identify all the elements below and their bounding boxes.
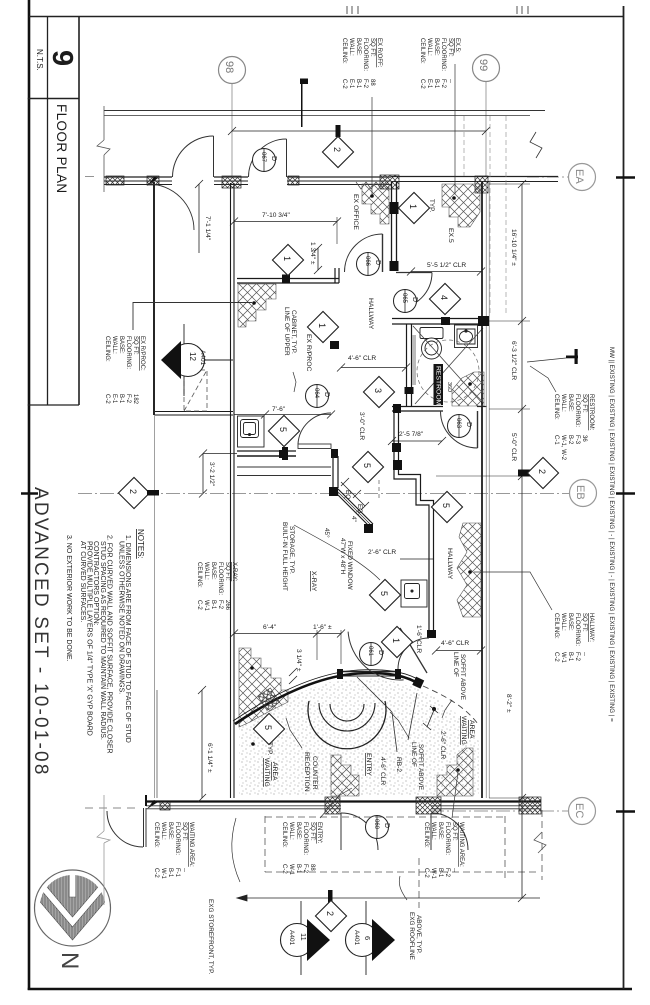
- svg-text:BASE:: BASE:: [210, 562, 216, 580]
- svg-text:SQ FT:: SQ FT:: [581, 394, 587, 413]
- notes block: [65, 529, 145, 754]
- svg-text:WALL:: WALL:: [348, 38, 354, 56]
- section marker 12/A401: [161, 324, 233, 396]
- svg-text:B-1: B-1: [437, 868, 443, 878]
- svg-text:--: --: [181, 868, 187, 872]
- restroom diagonals: [413, 326, 483, 404]
- svg-text:2: 2: [332, 147, 342, 152]
- svg-text:FLOORING:: FLOORING:: [574, 613, 580, 646]
- svg-text:5: 5: [278, 427, 288, 432]
- svg-text:FLOORING:: FLOORING:: [217, 562, 223, 595]
- svg-text:WAITING AREA:: WAITING AREA:: [188, 822, 194, 867]
- svg-text:C-2: C-2: [196, 600, 202, 610]
- door D/064 leaf+arc: [298, 413, 331, 449]
- svg-text:11: 11: [299, 933, 308, 941]
- svg-text:2'-6" CLR: 2'-6" CLR: [368, 549, 396, 556]
- svg-text:4: 4: [439, 295, 449, 300]
- svg-text:EA: EA: [573, 169, 585, 184]
- svg-text:B-1: B-1: [118, 394, 124, 404]
- svg-text:1: 1: [317, 323, 327, 328]
- finish tag ENTRY: [281, 822, 322, 876]
- svg-text:ADVANCED SET - 10-01-08: ADVANCED SET - 10-01-08: [30, 487, 51, 777]
- svg-text:SQ FT:: SQ FT:: [309, 822, 315, 841]
- svg-text:4": 4": [350, 516, 357, 522]
- svg-text:45°: 45°: [323, 528, 331, 538]
- svg-text:7'-10 3/4": 7'-10 3/4": [262, 212, 290, 219]
- svg-text:SQ FT:: SQ FT:: [581, 613, 587, 632]
- finish tag WAITING AREA left: [153, 822, 194, 880]
- svg-text:F-3: F-3: [574, 435, 580, 445]
- svg-text:D: D: [377, 650, 384, 655]
- svg-text:D: D: [383, 823, 390, 828]
- svg-text:B-2: B-2: [567, 435, 573, 445]
- diamond kn 5 b: [352, 451, 383, 482]
- svg-text:C-2: C-2: [553, 652, 559, 662]
- svg-text:C-2: C-2: [419, 79, 425, 89]
- hatch H3 (EX.5 pier): [442, 184, 480, 227]
- svg-text:5'-5 1/2" CLR: 5'-5 1/2" CLR: [427, 262, 466, 269]
- svg-text:N: N: [56, 952, 83, 969]
- door tag D/064: [306, 385, 331, 408]
- svg-text:X-RAY: X-RAY: [310, 571, 317, 592]
- label leaders over counter: [357, 677, 417, 752]
- svg-text:3'-2 1/2": 3'-2 1/2": [208, 462, 215, 487]
- wall W10 (EX.5 west): [392, 182, 397, 271]
- existing schedule column: [608, 347, 615, 722]
- svg-text:F-2: F-2: [217, 600, 223, 610]
- door tag D/066: [357, 253, 382, 276]
- bottom door far left: [107, 808, 146, 847]
- hatch on curve: [258, 688, 280, 710]
- diamond kn 5 a: [268, 415, 299, 446]
- svg-text:CEILING:: CEILING:: [419, 38, 425, 64]
- door D/063 leaf+arc: [441, 411, 478, 448]
- svg-text:060: 060: [373, 819, 379, 830]
- svg-text:99: 99: [477, 59, 489, 71]
- svg-text:12: 12: [188, 352, 197, 361]
- svg-text:F-2: F-2: [440, 79, 446, 89]
- keynote tick on dim: [336, 125, 341, 137]
- svg-text:1: 1: [408, 204, 418, 209]
- svg-text:E-1: E-1: [426, 79, 432, 89]
- bottom piers hatched: [160, 797, 541, 814]
- svg-text:5: 5: [441, 503, 451, 508]
- svg-text:2: 2: [325, 911, 335, 916]
- svg-text:2: 2: [128, 489, 138, 494]
- wall W2 (EX OFFICE south): [155, 412, 233, 416]
- svg-text:NOTES:: NOTES:: [136, 529, 145, 559]
- svg-text:FLOOR PLAN: FLOOR PLAN: [54, 104, 69, 194]
- hatch H4 restroom: [452, 372, 484, 406]
- svg-text:W-1, W-2: W-1, W-2: [560, 435, 566, 461]
- wall W1 left (EX OFFICE west): [153, 182, 156, 798]
- svg-text:FIXED WINDOW: FIXED WINDOW: [346, 541, 353, 591]
- svg-text:1: 1: [282, 256, 292, 261]
- grid bubble EC: [430, 798, 596, 825]
- svg-text:D: D: [270, 156, 277, 161]
- finish tag RESTROOM: [553, 394, 594, 461]
- svg-text:WALL:: WALL:: [560, 394, 566, 412]
- svg-text:7'-1 1/4": 7'-1 1/4": [204, 216, 211, 241]
- title block divider: [28, 98, 79, 100]
- svg-text:D: D: [323, 392, 330, 397]
- svg-text:AREA: AREA: [468, 720, 475, 739]
- svg-text:A401: A401: [353, 930, 360, 946]
- svg-text:MW || EXISTING | EXISTING | E: MW || EXISTING | EXISTING | EXISTING | E…: [608, 347, 615, 722]
- diamond kn 3: [363, 376, 394, 407]
- hatch H8 entry east: [437, 748, 473, 796]
- svg-text:RECEPTION: RECEPTION: [303, 752, 310, 792]
- svg-text:SOFFIT ABOVE: SOFFIT ABOVE: [459, 654, 466, 700]
- svg-text:E-1: E-1: [111, 394, 117, 404]
- svg-text:CEILING:: CEILING:: [281, 822, 287, 848]
- built-in storage dashes: [378, 480, 380, 500]
- svg-text:BASE:: BASE:: [567, 613, 573, 631]
- keynote diamond 2 top: [322, 136, 353, 167]
- door tag D/061: [360, 643, 385, 666]
- svg-text:CEILING:: CEILING:: [341, 38, 347, 64]
- keynote flag top: [300, 79, 308, 128]
- svg-text:F-2: F-2: [574, 652, 580, 662]
- svg-text:3. NO EXTERIOR WORK TO BE DON: 3. NO EXTERIOR WORK TO BE DONE.: [65, 535, 72, 662]
- svg-text:RESTROOM: RESTROOM: [435, 366, 442, 406]
- svg-text:C-2: C-2: [281, 864, 287, 874]
- svg-text:6'-1 1/4" ±: 6'-1 1/4" ±: [206, 743, 213, 773]
- border bottom thick: [28, 988, 632, 991]
- svg-text:EQ.: EQ.: [356, 504, 363, 515]
- svg-text:D: D: [465, 422, 472, 427]
- svg-text:F-1: F-1: [174, 868, 180, 878]
- svg-text:1: 1: [391, 638, 401, 643]
- svg-text:16'-10 1/4" ±: 16'-10 1/4" ±: [510, 229, 517, 266]
- svg-text:FLOORING:: FLOORING:: [125, 336, 131, 369]
- svg-text:1'-6" CLR: 1'-6" CLR: [415, 625, 422, 653]
- svg-text:2'-5 7/8": 2'-5 7/8": [399, 431, 424, 438]
- bottom dimension line: [237, 895, 540, 901]
- svg-text:6'-3 1/2" CLR: 6'-3 1/2" CLR: [510, 341, 517, 380]
- hatch H7 entry west: [331, 755, 359, 796]
- svg-text:--: --: [447, 79, 453, 83]
- svg-text:HALLWAY: HALLWAY: [446, 548, 453, 580]
- restroom label box: [434, 364, 444, 405]
- roofline dashed: [265, 810, 542, 908]
- svg-text:C-2: C-2: [423, 868, 429, 878]
- svg-text:STUD SPACING AS REQUIRED TO MA: STUD SPACING AS REQUIRED TO MAINTAIN WAL…: [99, 541, 106, 740]
- svg-text:BASE:: BASE:: [433, 38, 439, 56]
- storefront wall top: [104, 177, 558, 185]
- svg-text:E-1: E-1: [348, 79, 354, 89]
- svg-text:HALLWAY:: HALLWAY:: [588, 613, 594, 642]
- diamond kn 1 d: [381, 626, 412, 657]
- svg-text:WAITING AREA:: WAITING AREA:: [458, 822, 464, 867]
- svg-text:EX R/OFF:: EX R/OFF:: [376, 38, 382, 68]
- diamond kn 1 a: [272, 244, 303, 275]
- wall W3 thick (work room south): [237, 451, 338, 456]
- svg-text:8'-2" ±: 8'-2" ±: [505, 694, 512, 713]
- hatch H5 hallway: [457, 523, 481, 617]
- svg-text:FLOORING:: FLOORING:: [174, 822, 180, 855]
- door tag D/063: [448, 415, 473, 438]
- wall W4 (X-RAY west): [231, 183, 235, 798]
- svg-text:SQ FT:: SQ FT:: [447, 38, 453, 57]
- svg-text:RESTROOM:: RESTROOM:: [588, 394, 594, 431]
- svg-text:WAITING: WAITING: [263, 758, 270, 787]
- counter chord double line: [341, 672, 398, 677]
- svg-text:SQ FT:: SQ FT:: [132, 336, 138, 355]
- entry door D/061: [348, 628, 427, 684]
- door D/065 arc: [396, 273, 432, 309]
- band door A: [173, 136, 214, 177]
- svg-text:WALL:: WALL:: [203, 562, 209, 580]
- svg-text:F-2: F-2: [302, 864, 308, 874]
- svg-text:9: 9: [46, 50, 78, 66]
- reception counter arcs: [308, 701, 386, 749]
- finish tag EX.5: [419, 38, 460, 89]
- svg-text:TYP.: TYP.: [266, 742, 273, 756]
- svg-text:SQ FT:: SQ FT:: [451, 822, 457, 841]
- svg-text:065: 065: [401, 293, 407, 304]
- bottom band wall: [146, 800, 541, 802]
- svg-text:FLOORING:: FLOORING:: [574, 394, 580, 427]
- svg-text:CABINET, TYP.: CABINET, TYP.: [290, 310, 297, 354]
- svg-text:CEILING:: CEILING:: [104, 336, 110, 362]
- toilet: [420, 328, 443, 360]
- roofline break zigzag: [534, 832, 546, 853]
- wall W11 (hallway east): [482, 182, 489, 798]
- title block line 2: [78, 16, 80, 405]
- dashed existing lines top right: [464, 116, 506, 316]
- svg-text:B-1: B-1: [355, 79, 361, 89]
- svg-text:SQ FT:: SQ FT:: [224, 562, 230, 581]
- svg-text:6'-4": 6'-4": [263, 624, 277, 631]
- svg-text:EQ.: EQ.: [344, 490, 351, 501]
- svg-text:F-2: F-2: [125, 394, 131, 404]
- diamond kn 1 b: [307, 311, 338, 342]
- door X-RAY arc: [398, 638, 429, 669]
- door tag D/065: [394, 290, 419, 313]
- svg-text:EXG ROOFLINE: EXG ROOFLINE: [408, 912, 415, 960]
- svg-text:5: 5: [379, 591, 389, 596]
- svg-text:F-2: F-2: [362, 79, 368, 89]
- svg-text:6: 6: [363, 936, 372, 940]
- svg-text:EB: EB: [574, 485, 586, 500]
- svg-text:X-RAY:: X-RAY:: [231, 562, 237, 582]
- diamond kn 2 right: [518, 470, 532, 477]
- diamond kn 5 d: [369, 579, 400, 610]
- svg-text:--: --: [451, 868, 457, 872]
- diamond kn 2 left: [118, 477, 149, 508]
- svg-text:WALL:: WALL:: [160, 822, 166, 840]
- svg-text:5: 5: [362, 463, 372, 468]
- svg-text:N.T.S.: N.T.S.: [35, 49, 44, 71]
- band door B: [249, 139, 287, 177]
- svg-text:UNLESS OTHERWISE NOTED ON DRAW: UNLESS OTHERWISE NOTED ON DRAWINGS.: [118, 541, 125, 694]
- svg-text:LINE OF: LINE OF: [452, 652, 459, 677]
- svg-text:A401: A401: [288, 930, 295, 946]
- svg-text:CEILING:: CEILING:: [553, 613, 559, 639]
- svg-text:EXG STOREFRONT, TYP.: EXG STOREFRONT, TYP.: [207, 899, 214, 975]
- svg-text:RB-2: RB-2: [395, 757, 402, 772]
- dim 7-1 vertical pair: [195, 180, 203, 253]
- svg-text:B-1: B-1: [433, 79, 439, 89]
- svg-text:4'-6" CLR: 4'-6" CLR: [441, 640, 469, 647]
- svg-text:D: D: [411, 297, 418, 302]
- svg-text:064: 064: [313, 388, 319, 399]
- svg-text:EX.5: EX.5: [447, 228, 454, 243]
- svg-text:5: 5: [263, 725, 273, 730]
- svg-text:066: 066: [364, 256, 370, 267]
- svg-text:BASE:: BASE:: [295, 822, 301, 840]
- svg-text:B-1: B-1: [295, 864, 301, 874]
- svg-text:CEILING:: CEILING:: [196, 562, 202, 588]
- dim line 98-99: [228, 127, 490, 135]
- svg-text:063: 063: [455, 418, 461, 429]
- diagonal fixed window: [334, 488, 373, 527]
- svg-text:B-1: B-1: [167, 868, 173, 878]
- hatch H1 (EX R/PROC pier): [238, 284, 276, 327]
- svg-text:SQ FT:: SQ FT:: [369, 38, 375, 57]
- svg-text:WALL:: WALL:: [426, 38, 432, 56]
- svg-text:D: D: [374, 260, 381, 265]
- svg-text:BASE:: BASE:: [118, 336, 124, 354]
- svg-text:4'-6" CLR: 4'-6" CLR: [348, 355, 376, 362]
- svg-text:F-2: F-2: [444, 868, 450, 878]
- EX OFFICE entry door arc (inside room1): [148, 184, 194, 230]
- bottom double door: [341, 813, 468, 850]
- svg-text:AT CURVED SURFACES.: AT CURVED SURFACES.: [79, 541, 86, 622]
- turning circle dashed: [417, 340, 479, 402]
- keynote flag right: [566, 356, 578, 359]
- svg-text:B-1: B-1: [567, 652, 573, 662]
- stipple floor waiting/entry: [239, 678, 479, 796]
- north arrow logo: [35, 868, 111, 946]
- restroom west wall: [407, 324, 412, 406]
- border top: [29, 16, 624, 18]
- svg-text:ENTRY: ENTRY: [365, 753, 372, 776]
- dashed closet: [184, 370, 207, 411]
- diamond kn 5 e: [253, 713, 284, 744]
- diamond kn 1 c: [398, 192, 429, 223]
- section marker 6/A401: [346, 901, 396, 975]
- border right: [623, 6, 625, 989]
- svg-text:EX R/PROC:: EX R/PROC:: [139, 336, 145, 371]
- svg-text:BASE:: BASE:: [437, 822, 443, 840]
- glazing marks: [356, 182, 386, 189]
- title block end: [28, 404, 79, 406]
- svg-text:FLOORING:: FLOORING:: [362, 38, 368, 71]
- fold marks top: [347, 6, 528, 14]
- svg-text:266: 266: [224, 600, 230, 611]
- svg-text:EC: EC: [573, 803, 585, 818]
- svg-text:B-1: B-1: [210, 600, 216, 610]
- finish tag EX R/OFF: [341, 38, 382, 89]
- soffit dashed continuation: [423, 686, 478, 724]
- svg-text:C-1: C-1: [553, 435, 559, 445]
- svg-text:COUNTER: COUNTER: [311, 756, 318, 790]
- svg-text:W-1: W-1: [560, 652, 566, 664]
- door D/066 leaf+arc: [345, 234, 383, 272]
- restroom south wall: [392, 407, 487, 412]
- svg-text:TYP.: TYP.: [428, 199, 435, 213]
- svg-text:SOFFIT ABOVE: SOFFIT ABOVE: [417, 744, 424, 790]
- border left thick: [28, 0, 31, 990]
- svg-text:2: 2: [537, 469, 547, 474]
- curved wall: [233, 670, 422, 724]
- svg-text:LINE OF UPPER: LINE OF UPPER: [283, 307, 290, 356]
- svg-text:98: 98: [223, 61, 235, 73]
- svg-text:EX R/PROC: EX R/PROC: [305, 334, 312, 371]
- svg-text:WALL:: WALL:: [430, 822, 436, 840]
- wall W7 stepped (X-RAY east): [394, 411, 434, 637]
- svg-text:7'-6": 7'-6": [272, 406, 286, 413]
- svg-text:3: 3: [373, 388, 383, 393]
- svg-text:ABOVE, TYP.: ABOVE, TYP.: [415, 915, 422, 954]
- svg-text:ENTRY:: ENTRY:: [316, 822, 322, 844]
- svg-text:WAITING: WAITING: [460, 716, 467, 745]
- svg-text:C-2: C-2: [153, 868, 159, 878]
- wall W5 (X-RAY NE vert): [333, 456, 338, 488]
- svg-text:WALL:: WALL:: [288, 822, 294, 840]
- keynote diamond 2 bottom: [315, 900, 346, 931]
- finish tag WAITING AREA right: [423, 822, 464, 880]
- diamond kn 4: [429, 283, 460, 314]
- grid bubble 98: [219, 57, 246, 177]
- dim 2-6 diag: [432, 707, 436, 711]
- svg-text:2'-6" CLR: 2'-6" CLR: [439, 731, 446, 759]
- svg-text:SQ FT:: SQ FT:: [181, 822, 187, 841]
- svg-text:CEILING:: CEILING:: [423, 822, 429, 848]
- finish tag X-RAY: [196, 562, 237, 612]
- svg-text:W-1: W-1: [203, 600, 209, 612]
- cased opening lines: [237, 467, 331, 476]
- svg-text:STORAGE, TYP.: STORAGE, TYP.: [288, 526, 295, 574]
- svg-text:47"W x 48"H: 47"W x 48"H: [339, 538, 346, 575]
- X-RAY sink cabinet: [401, 580, 427, 607]
- svg-text:067: 067: [260, 152, 266, 163]
- svg-text:5'-0" CLR: 5'-0" CLR: [510, 433, 517, 461]
- svg-text:A401: A401: [199, 350, 206, 366]
- work room sink counter: [238, 416, 265, 447]
- svg-text:36D: 36D: [446, 382, 452, 392]
- svg-text:W-1: W-1: [288, 864, 294, 876]
- svg-text:--: --: [581, 652, 587, 656]
- svg-text:1 3/4" ±: 1 3/4" ±: [309, 242, 316, 265]
- svg-text:BUILT-IN FULL HEIGHT: BUILT-IN FULL HEIGHT: [281, 522, 288, 591]
- svg-text:1'-6" ±: 1'-6" ±: [313, 624, 332, 631]
- grid bubble EA: [527, 164, 596, 191]
- svg-text:C-2: C-2: [341, 79, 347, 89]
- finish tag HALLWAY: [553, 613, 594, 664]
- svg-text:C-2: C-2: [104, 394, 110, 404]
- diamond kn 5 c: [431, 491, 462, 522]
- band right break: [530, 132, 542, 158]
- title block line 1: [47, 16, 49, 405]
- wall W13 (EX R/PROC south): [237, 268, 339, 283]
- svg-text:EX OFFICE: EX OFFICE: [352, 194, 359, 230]
- restroom north wall: [392, 319, 487, 325]
- grid bubble 99: [473, 55, 500, 177]
- storefront piers hatched: [106, 175, 488, 193]
- svg-text:88: 88: [369, 79, 375, 86]
- svg-text:LINE OF: LINE OF: [410, 742, 417, 767]
- hatch H2: [362, 184, 389, 224]
- svg-text:WALL:: WALL:: [111, 336, 117, 354]
- svg-text:HALLWAY: HALLWAY: [367, 298, 374, 330]
- hatch H6 NW wedge: [239, 648, 288, 727]
- band SW corner jog: [145, 795, 147, 806]
- svg-text:W-1: W-1: [430, 868, 436, 880]
- svg-text:AREA: AREA: [271, 762, 278, 781]
